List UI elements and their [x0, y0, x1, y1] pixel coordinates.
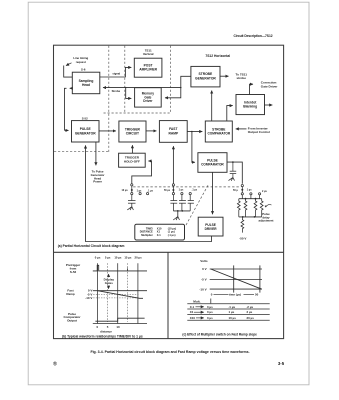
- block TIME/DISTANCE Multiplier switch: [135, 224, 185, 240]
- svg-text:distance: distance: [100, 329, 112, 333]
- svg-text:Blanking: Blanking: [243, 105, 257, 109]
- net label Correction Gate Driver: [261, 81, 278, 89]
- resistor R2: [244, 199, 247, 217]
- svg-text:S-52: S-52: [70, 270, 77, 274]
- svg-text:10 μs: 10 μs: [122, 189, 129, 192]
- label pulse delay adjustment: [259, 212, 274, 222]
- figure caption: [90, 350, 249, 354]
- block S-6 label: [81, 68, 86, 72]
- wire strobe comparator to interdot blanking: [227, 106, 233, 121]
- svg-text:adjustment: adjustment: [259, 219, 274, 223]
- svg-text:Multiplier: Multiplier: [141, 233, 153, 237]
- wire interdot blanking output right: [265, 104, 273, 106]
- svg-text:X.1: X.1: [157, 233, 161, 237]
- graph b grid solid verticals: [98, 263, 138, 323]
- footer page number: [278, 361, 285, 366]
- potentiometer adjustment arrow: [265, 205, 272, 208]
- figure border: [54, 45, 284, 338]
- svg-text:CIRCUIT: CIRCUIT: [126, 132, 139, 136]
- svg-text:2 μs: 2 μs: [247, 310, 253, 314]
- footer registered mark: [53, 361, 57, 368]
- switch ganged dashed line: [133, 186, 239, 188]
- table row 1: [190, 305, 254, 309]
- node label Fast Ramp: [66, 289, 75, 296]
- graph c vertical lines: [234, 265, 260, 292]
- svg-text:-5 V: -5 V: [201, 278, 207, 282]
- wire interdot blanking to correction gate driver: [250, 84, 254, 94]
- resistor R3: [254, 199, 257, 217]
- graph b grid dashed verticals: [108, 263, 128, 322]
- svg-text:AMPLIFIER: AMPLIFIER: [139, 68, 157, 72]
- graph b pulse comparator output waveform: [95, 318, 144, 321]
- svg-text:1 μs: 1 μs: [247, 189, 252, 192]
- svg-text:20 μs: 20 μs: [247, 316, 255, 320]
- svg-text:Output: Output: [67, 319, 77, 323]
- block Memory Gate Driver: [135, 88, 162, 107]
- svg-text:.1 μs: .1 μs: [229, 305, 236, 309]
- block FAST RAMP: [159, 121, 187, 143]
- svg-text:S-6: S-6: [81, 68, 86, 72]
- svg-text:Driver: Driver: [143, 99, 153, 103]
- svg-text:COMPARATOR: COMPARATOR: [201, 163, 224, 167]
- svg-text:Strobe: Strobe: [112, 89, 121, 93]
- value labels group 1: [122, 189, 154, 193]
- wire trigger holdoff to trigger circuit: [131, 145, 133, 153]
- svg-text:X.1: X.1: [190, 305, 195, 309]
- annotation Display Gates with arrows: [104, 278, 115, 286]
- block TRIGGER CIRCUIT: [119, 121, 146, 142]
- svg-text:7S12 Horizontal: 7S12 Horizontal: [205, 54, 230, 58]
- wire strobe generator to memory gate driver: [165, 76, 191, 98]
- wire to pulse generator head power: [95, 142, 97, 165]
- svg-text:Vertical: Vertical: [143, 52, 154, 56]
- table row 3: [190, 316, 254, 320]
- ground group2: [173, 217, 179, 221]
- switch group 2 contacts: [172, 184, 191, 201]
- svg-text:50 μs: 50 μs: [164, 189, 171, 192]
- wire from inverter output control: [236, 128, 247, 130]
- block STROBE COMPARATOR: [205, 121, 232, 142]
- svg-text:Gates: Gates: [105, 281, 113, 285]
- graph b axis title: [100, 329, 112, 333]
- svg-text:5 μs: 5 μs: [105, 255, 111, 259]
- svg-text:50: 50: [255, 293, 259, 297]
- svg-text:DISTANCE: DISTANCE: [140, 230, 153, 234]
- capacitor C group1: [128, 201, 136, 207]
- svg-text:1 μs: 1 μs: [229, 310, 235, 314]
- graph b 0V line: [93, 290, 147, 292]
- graph c x axis annotation: [211, 293, 259, 297]
- svg-text:strobe: strobe: [236, 76, 246, 80]
- svg-text:®: ®: [53, 361, 57, 368]
- svg-text:2 μs: 2 μs: [262, 190, 267, 193]
- graph b axis numbers: [96, 325, 120, 329]
- svg-text:time (μs): time (μs): [229, 293, 241, 297]
- block TRIGGER HOLDOFF: [119, 153, 146, 167]
- block S-52 label: [82, 116, 88, 120]
- svg-text:GENERATOR: GENERATOR: [195, 77, 216, 81]
- graph c title Volts: [200, 259, 208, 263]
- svg-text:X1: X1: [190, 310, 194, 314]
- zone boundary dashed lines: [54, 46, 171, 152]
- svg-text:(a) Partial Horizontal Circuit: (a) Partial Horizontal Circuit block dia…: [58, 244, 125, 248]
- svg-text:-10 V: -10 V: [85, 296, 92, 300]
- resistor network bottom rail: [239, 216, 262, 218]
- graph c horizontal lines: [210, 269, 262, 289]
- svg-text:(.1 μs): (.1 μs): [168, 233, 176, 237]
- graph b x axis: [93, 323, 147, 325]
- svg-text:DRIVER: DRIVER: [205, 227, 218, 231]
- graph c voltage labels: [199, 267, 206, 291]
- svg-text:10 μs: 10 μs: [229, 316, 237, 320]
- capacitors group2: [170, 201, 194, 211]
- block PULSE COMPARATOR: [198, 153, 227, 173]
- svg-text:(c) Effect of Multiplier switc: (c) Effect of Multiplier switch on Fast …: [182, 333, 257, 337]
- resistor R1: [237, 199, 240, 217]
- svg-text:10: 10: [116, 325, 120, 329]
- svg-text:-50 V: -50 V: [239, 236, 246, 240]
- svg-text:COMPARATOR: COMPARATOR: [207, 132, 230, 136]
- block Interdot Blanking: [236, 95, 265, 115]
- resistor R5 to -50V: [241, 217, 244, 233]
- value labels group 3: [233, 189, 267, 193]
- svg-text:0 μs: 0 μs: [95, 256, 101, 260]
- wire strobe comparator to strobe generator: [211, 91, 213, 122]
- svg-text:TIME/: TIME/: [146, 226, 153, 230]
- wire strobe branch to memory gate driver left: [125, 87, 131, 99]
- wire common rail group2: [173, 210, 190, 217]
- wire fast ramp to strobe comparator with branch to pulse comparator: [187, 131, 202, 163]
- svg-text:Gate Driver: Gate Driver: [261, 85, 278, 89]
- net label To Pulse Generator Head Power: [91, 170, 106, 184]
- svg-text:Circuit Description—7S12: Circuit Description—7S12: [233, 34, 272, 38]
- wire trigger pickoff sampling head to pulse generator: [65, 88, 73, 130]
- graph b -5V -10V dashed lines: [93, 294, 138, 298]
- svg-text:request: request: [76, 60, 86, 64]
- ground group1: [127, 207, 133, 210]
- net label From Inverter Output Control: [248, 126, 270, 134]
- svg-text:Mult.: Mult.: [193, 299, 200, 303]
- svg-text:(1 μs): (1 μs): [168, 230, 175, 234]
- svg-text:Volts: Volts: [200, 259, 208, 263]
- svg-text:HOLD-OFF: HOLD-OFF: [124, 160, 140, 164]
- svg-text:.2 μs: .2 μs: [247, 305, 254, 309]
- block POST AMPLIFIER: [134, 58, 162, 77]
- caption (c): [182, 333, 257, 337]
- wire strobe generator output to 7S11: [220, 75, 229, 77]
- svg-text:20 μs: 20 μs: [135, 255, 143, 259]
- wire pulse comparator output to delay network: [227, 161, 242, 184]
- svg-text:3-5: 3-5: [278, 361, 285, 366]
- wire pulse driver feedback to pulse generator: [86, 145, 212, 241]
- node label Pretrigger from S-52: [66, 263, 81, 274]
- wire timing node to trigger holdoff: [132, 161, 152, 184]
- capacitor at pulse comparator output: [230, 162, 237, 177]
- svg-text:-10 V: -10 V: [199, 287, 206, 291]
- wire strobe into sampling head: [103, 87, 181, 89]
- block PULSE DRIVER: [198, 217, 223, 236]
- svg-text:1 μs: 1 μs: [179, 189, 184, 192]
- switch group 3 contacts: [241, 185, 261, 199]
- net label Strobe: [112, 89, 121, 93]
- ground at pulse comparator output cap: [229, 177, 235, 180]
- node label Pulse Comparator Output: [63, 312, 81, 323]
- graph b fast ramp waveform: [98, 291, 143, 299]
- value labels group 2: [164, 189, 198, 192]
- net label signal: [112, 72, 120, 76]
- svg-text:0 μs: 0 μs: [207, 310, 213, 314]
- svg-text:(b) Typical waveform relations: (b) Typical waveform relationships TIME/…: [62, 334, 143, 338]
- svg-text:Head: Head: [82, 83, 90, 87]
- svg-text:X1: X1: [157, 230, 161, 234]
- svg-text:.1 μs: .1 μs: [147, 190, 153, 193]
- switch linkage dashed diagonal: [185, 185, 208, 226]
- resistor R4: [260, 199, 263, 217]
- wire trigger circuit to fast ramp: [146, 130, 156, 132]
- net label -50 V: [239, 236, 246, 240]
- svg-text:15 μs: 15 μs: [124, 255, 132, 259]
- svg-text:0 V: 0 V: [202, 267, 207, 271]
- svg-text:Fig. 3-4. Partial Horizontal c: Fig. 3-4. Partial Horizontal circuit blo…: [90, 350, 249, 354]
- block PULSE GENERATOR: [72, 121, 100, 142]
- svg-text:1 μs: 1 μs: [137, 190, 142, 193]
- block Sampling Head: [72, 72, 100, 94]
- svg-text:50 μ: 50 μ: [233, 189, 238, 192]
- wire pulse comparator to pulse driver: [212, 172, 214, 214]
- header text: [233, 34, 272, 38]
- svg-text:Ramp: Ramp: [66, 292, 75, 296]
- svg-text:signal: signal: [112, 72, 120, 76]
- svg-text:Output Control: Output Control: [248, 130, 270, 134]
- net label To 7S11 strobe: [235, 72, 247, 80]
- node: trig input annotation: [66, 56, 89, 65]
- caption (b): [62, 334, 143, 338]
- svg-text:GENERATOR: GENERATOR: [75, 131, 96, 135]
- svg-text:10 μs: 10 μs: [114, 255, 122, 259]
- svg-text:X10: X10: [157, 226, 162, 230]
- zone label 7S11 Vertical: [143, 48, 154, 56]
- svg-text:0 μs: 0 μs: [207, 305, 213, 309]
- svg-text:S-52: S-52: [82, 116, 88, 120]
- wire pulse generator to trigger circuit: [99, 130, 116, 132]
- svg-text:X10: X10: [190, 316, 196, 320]
- svg-text:0 μs: 0 μs: [207, 316, 213, 320]
- wire trig input to sampling head: [64, 66, 73, 78]
- table rules: [187, 304, 269, 321]
- graph b pretrigger waveform: [93, 265, 147, 271]
- resistor network top rail: [239, 198, 262, 200]
- graph b voltage labels: [85, 289, 92, 300]
- zone label 7S12 Horizontal: [205, 54, 230, 58]
- svg-text:Power: Power: [93, 180, 103, 184]
- graph c ramp line: [211, 269, 262, 289]
- graph b time labels: [95, 255, 142, 259]
- table header Mult: [193, 299, 200, 303]
- block STROBE GENERATOR: [191, 66, 220, 87]
- table row 2: [190, 310, 253, 314]
- svg-text:(10 μs): (10 μs): [168, 226, 176, 230]
- wire fast ramp timing caps: [172, 146, 174, 183]
- wire signal: sampling head to post amplifier: [100, 67, 132, 77]
- caption (a): [58, 244, 125, 248]
- switch group 1 contacts: [131, 184, 149, 201]
- svg-text:.1 μs: .1 μs: [192, 189, 198, 192]
- svg-text:RAMP: RAMP: [168, 131, 179, 135]
